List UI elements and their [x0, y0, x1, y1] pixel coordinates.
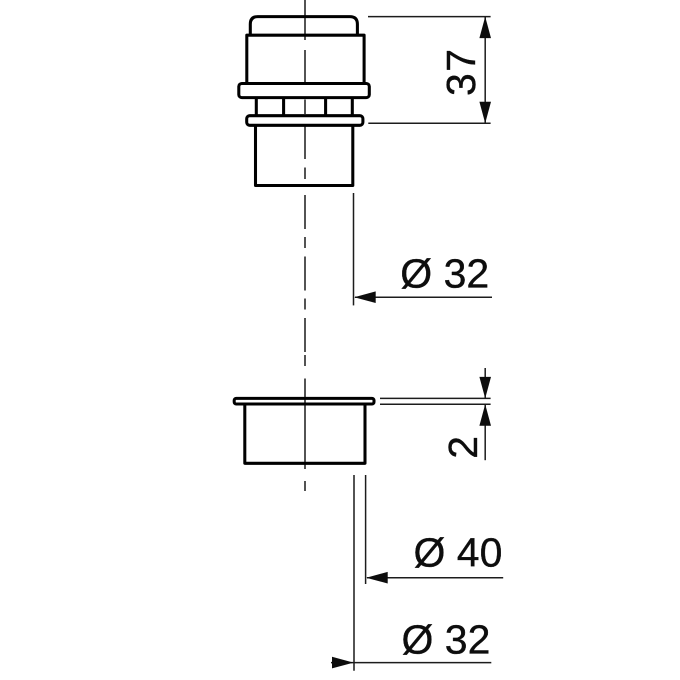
- svg-text:37: 37: [438, 47, 484, 96]
- svg-text:Ø 32: Ø 32: [402, 617, 491, 663]
- svg-text:2: 2: [440, 436, 486, 459]
- svg-text:Ø 32: Ø 32: [400, 251, 489, 297]
- svg-text:Ø 40: Ø 40: [414, 530, 503, 576]
